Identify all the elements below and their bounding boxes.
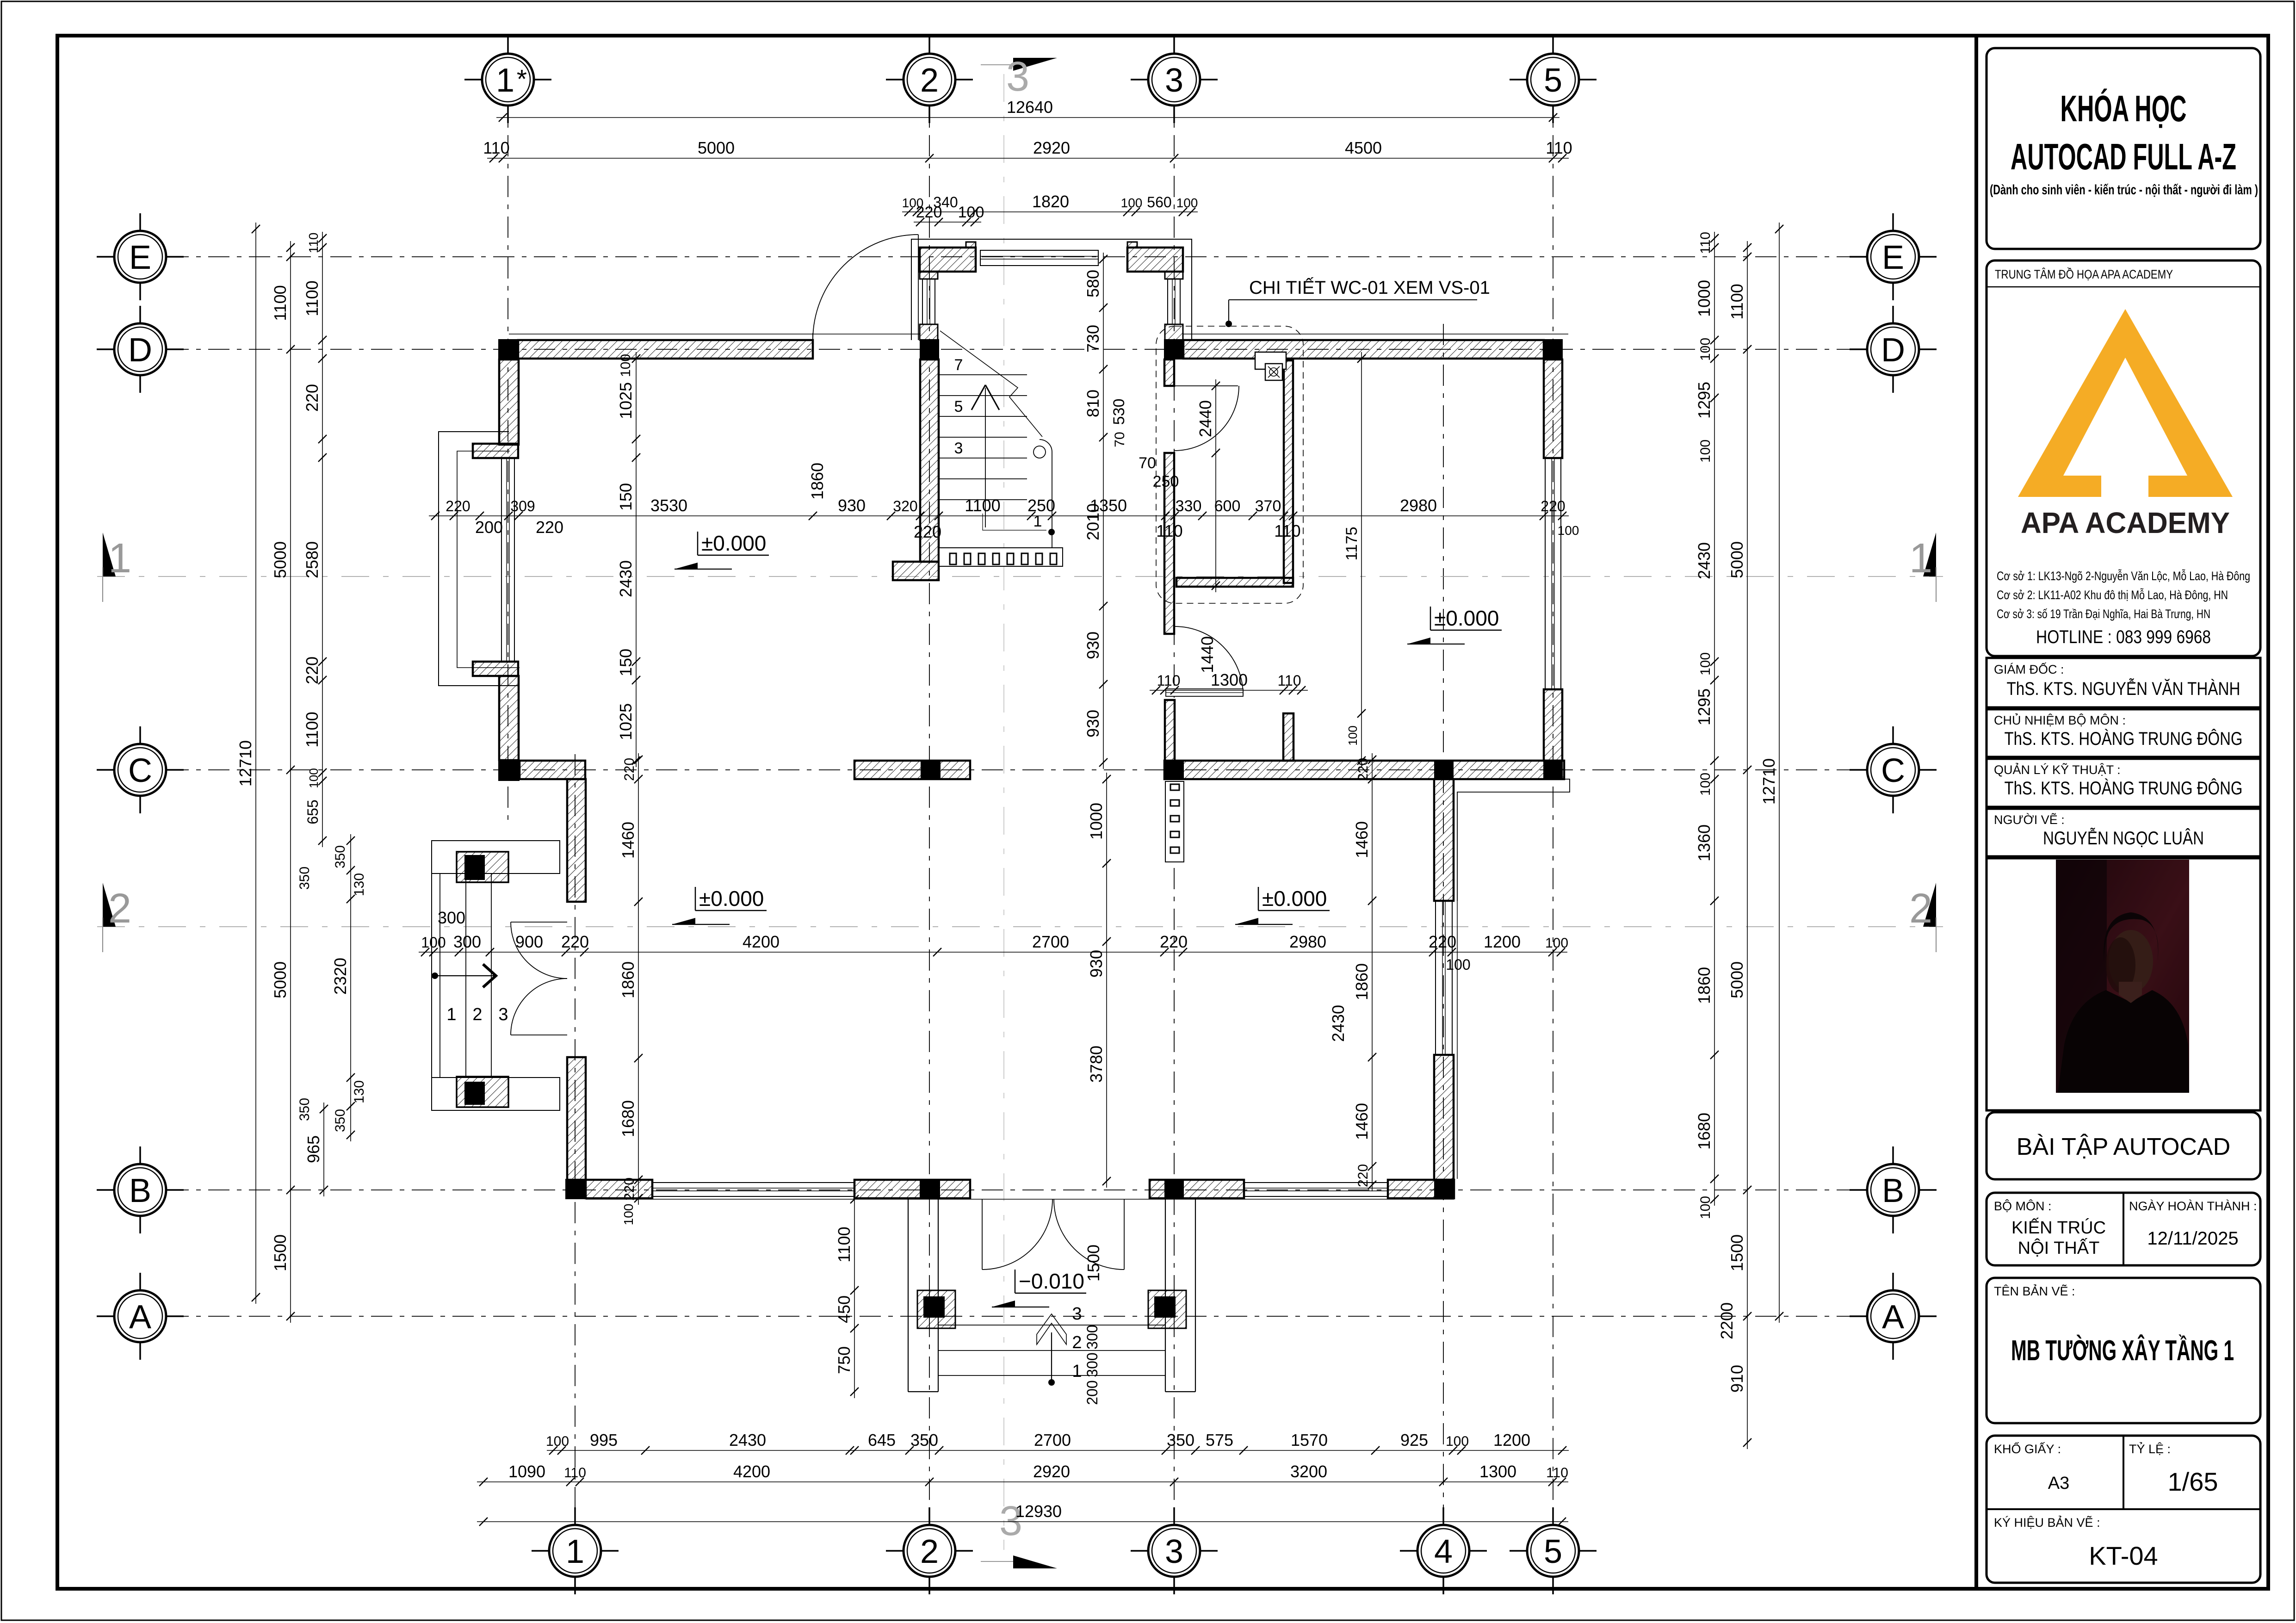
svg-text:110: 110 — [1546, 1465, 1568, 1481]
axis 1* vertical — [507, 54, 508, 824]
svg-text:NGÀY HOÀN THÀNH :: NGÀY HOÀN THÀNH : — [2129, 1199, 2257, 1213]
svg-text:C: C — [1881, 752, 1905, 789]
vestibule west window — [922, 279, 935, 324]
svg-text:100: 100 — [958, 204, 984, 221]
svg-text:A: A — [1882, 1299, 1904, 1336]
wall axis1 vertical upper (entry side) — [567, 779, 586, 902]
svg-text:150: 150 — [616, 483, 635, 511]
svg-text:930: 930 — [1083, 632, 1102, 659]
svg-text:KHỔ GIẤY :: KHỔ GIẤY : — [1994, 1442, 2061, 1456]
axis4 wall outer face line — [1457, 901, 1458, 1179]
svg-text:3: 3 — [1072, 1304, 1082, 1324]
interior vertical dims left living x1380 — [638, 753, 639, 1205]
grid bubble C left — [114, 744, 166, 796]
WC west wall middle — [1164, 453, 1174, 634]
west entry arrow — [435, 975, 497, 976]
svg-text:Cơ sở 1: LK13-Ngõ 2-Nguyễn Văn: Cơ sở 1: LK13-Ngõ 2-Nguyễn Văn Lộc, Mỗ L… — [1997, 569, 2250, 583]
wall C long segment east — [1164, 761, 1564, 779]
west wall stub lower — [473, 662, 518, 676]
top dim row 4 — [914, 222, 981, 223]
west porch pier bottom — [457, 1077, 508, 1107]
grid bubble D left — [114, 323, 166, 375]
box kho giay / ty le / ky hieu — [1987, 1436, 2260, 1583]
grid bubble C right — [1867, 744, 1919, 796]
stair bottom toothed band — [939, 548, 1063, 566]
grid bubble D right — [1867, 323, 1919, 375]
svg-text:900: 900 — [515, 932, 543, 951]
WC equipment box — [1255, 352, 1286, 369]
svg-text:D: D — [1881, 332, 1905, 369]
svg-text:2700: 2700 — [1032, 932, 1069, 951]
svg-text:12710: 12710 — [1759, 758, 1778, 805]
svg-text:1500: 1500 — [1084, 1245, 1103, 1282]
svg-text:4500: 4500 — [1345, 138, 1382, 157]
leader CHI TIET WC-01 — [1229, 299, 1477, 300]
svg-text:930: 930 — [838, 496, 866, 515]
column C/4 — [1434, 760, 1454, 780]
svg-text:370: 370 — [1255, 497, 1281, 515]
svg-text:1025: 1025 — [616, 382, 635, 419]
svg-text:±0.000: ±0.000 — [1262, 886, 1327, 911]
grid bubble B right — [1867, 1164, 1919, 1216]
svg-text:1: 1 — [1034, 513, 1042, 530]
svg-text:AUTOCAD FULL A-Z: AUTOCAD FULL A-Z — [2011, 136, 2236, 177]
box giam doc — [1987, 658, 2260, 707]
svg-text:1100: 1100 — [303, 712, 322, 747]
south entry door jamb walls — [1150, 1180, 1244, 1198]
svg-text:600: 600 — [1214, 497, 1241, 515]
svg-text:B: B — [1882, 1172, 1904, 1209]
grid bubble E right — [1867, 231, 1919, 283]
west porch top band — [432, 841, 560, 873]
svg-text:2980: 2980 — [1400, 496, 1437, 515]
svg-text:995: 995 — [590, 1431, 618, 1450]
svg-text:309: 309 — [510, 498, 535, 514]
vestibule top wall east piece — [1127, 248, 1183, 272]
right dim col segments — [1714, 232, 1715, 1206]
svg-text:5: 5 — [1544, 1533, 1562, 1570]
axis 4 vertical — [1443, 324, 1444, 1521]
svg-text:220: 220 — [561, 932, 589, 951]
door arc west entry lower — [511, 979, 567, 1035]
svg-text:100: 100 — [621, 1204, 636, 1226]
svg-text:5: 5 — [954, 398, 963, 415]
axis B horizontal — [167, 1189, 1864, 1190]
svg-text:1: 1 — [1909, 535, 1932, 582]
column B/2 — [920, 1179, 940, 1199]
top dim row axis spans — [487, 158, 1569, 159]
svg-text:1: 1 — [566, 1533, 584, 1570]
svg-text:1200: 1200 — [1484, 932, 1521, 951]
WC bottom wall — [1176, 578, 1293, 587]
svg-text:1025: 1025 — [616, 703, 635, 740]
svg-text:C: C — [128, 752, 152, 789]
svg-text:100: 100 — [1446, 956, 1470, 973]
box bo mon / ngay — [1987, 1193, 2260, 1265]
step outline at C/5 corner — [1457, 779, 1570, 901]
column C/1* — [498, 760, 520, 781]
svg-text:CHỦ NHIỆM BỘ MÔN :: CHỦ NHIỆM BỘ MÔN : — [1994, 712, 2126, 727]
svg-text:100: 100 — [546, 1434, 569, 1449]
box nguoi ve — [1987, 809, 2260, 856]
grid bubble 4 bottom — [1417, 1525, 1469, 1577]
interior vertical dims top-left room x1375 — [636, 352, 637, 767]
svg-text:250: 250 — [1027, 496, 1055, 515]
svg-text:110: 110 — [1156, 521, 1182, 540]
svg-text:560: 560 — [1147, 194, 1171, 211]
svg-text:1000: 1000 — [1695, 280, 1714, 317]
svg-text:1100: 1100 — [1727, 284, 1746, 319]
stair handrail curl — [1034, 446, 1046, 458]
svg-text:220: 220 — [1429, 932, 1456, 951]
grid bubble 1* top — [482, 54, 534, 105]
left porch dims — [350, 834, 351, 1141]
svg-text:E: E — [129, 239, 151, 276]
svg-text:150: 150 — [616, 649, 635, 676]
column B/1 — [565, 1179, 586, 1199]
svg-text:2320: 2320 — [331, 958, 350, 995]
svg-text:330: 330 — [1176, 497, 1202, 515]
svg-text:A: A — [129, 1299, 151, 1336]
axis E horizontal — [167, 256, 1864, 257]
svg-text:BỘ MÔN :: BỘ MÔN : — [1994, 1199, 2052, 1213]
svg-text:350: 350 — [333, 845, 348, 868]
left dim col total 12710 — [255, 223, 256, 1304]
bottom dim row 2 — [477, 1481, 1568, 1482]
svg-text:250: 250 — [1153, 473, 1179, 490]
svg-text:930: 930 — [1087, 950, 1106, 978]
axis D horizontal — [167, 349, 1864, 350]
west entry door leaves — [511, 922, 567, 923]
svg-text:930: 930 — [1083, 710, 1102, 737]
bottom dim row 1 — [547, 1450, 1569, 1451]
vestibule top wall west piece — [920, 248, 976, 272]
svg-text:100: 100 — [1698, 652, 1713, 675]
svg-text:645: 645 — [868, 1431, 896, 1450]
vestibule top window — [980, 250, 1098, 266]
svg-text:220: 220 — [914, 522, 941, 541]
svg-text:1680: 1680 — [1695, 1113, 1714, 1150]
interior dim row upper rooms y1115 — [429, 515, 1569, 516]
left dim col segments — [322, 232, 323, 847]
svg-text:110: 110 — [483, 138, 509, 157]
svg-text:2: 2 — [1072, 1333, 1082, 1352]
interior vertical dims center x2392 — [1106, 773, 1107, 1188]
svg-text:300: 300 — [453, 932, 481, 951]
bottom dim row 3 total — [477, 1521, 1568, 1522]
svg-text:2430: 2430 — [1329, 1005, 1348, 1042]
svg-text:2: 2 — [920, 1533, 939, 1570]
kitchen toothed strip — [1165, 781, 1184, 862]
south porch steps — [938, 1325, 1165, 1326]
svg-text:220: 220 — [1160, 932, 1188, 951]
axis A horizontal — [167, 1316, 1864, 1317]
svg-text:2700: 2700 — [1034, 1431, 1071, 1450]
vestibule east wall upper stub — [1165, 272, 1183, 279]
stair treads — [939, 374, 1027, 375]
svg-text:110: 110 — [1277, 672, 1301, 689]
svg-text:GIÁM ĐỐC :: GIÁM ĐỐC : — [1994, 662, 2064, 676]
svg-text:1860: 1860 — [1695, 967, 1714, 1004]
interior dims lower rooms row y2058 — [419, 952, 1567, 953]
svg-text:220: 220 — [303, 384, 322, 412]
column C/5 — [1543, 760, 1563, 780]
svg-text:1: 1 — [108, 535, 131, 582]
svg-text:100: 100 — [1346, 725, 1360, 745]
section line 2-2 — [97, 926, 1943, 927]
svg-text:NGUYỄN NGỌC LUÂN: NGUYỄN NGỌC LUÂN — [2043, 827, 2204, 849]
box quan ly — [1987, 759, 2260, 807]
svg-text:1460: 1460 — [1352, 1103, 1371, 1140]
svg-text:320: 320 — [893, 498, 917, 514]
south entry arrow — [1051, 1332, 1052, 1382]
svg-text:*: * — [517, 64, 527, 94]
svg-text:300: 300 — [1084, 1325, 1101, 1349]
svg-text:220: 220 — [916, 204, 942, 221]
svg-text:NỘI THẤT: NỘI THẤT — [2018, 1238, 2100, 1258]
wall stub above C (1175) — [1283, 713, 1293, 761]
svg-text:220: 220 — [536, 518, 563, 537]
svg-text:2: 2 — [920, 62, 939, 99]
axis 5 vertical — [1553, 54, 1553, 1521]
svg-text:350: 350 — [297, 867, 312, 890]
svg-text:70: 70 — [1139, 454, 1156, 472]
window B wall east — [1244, 1183, 1388, 1196]
svg-text:1860: 1860 — [619, 961, 637, 998]
svg-text:3200: 3200 — [1290, 1462, 1327, 1481]
svg-text:ThS. KTS. HOÀNG TRUNG ĐÔNG: ThS. KTS. HOÀNG TRUNG ĐÔNG — [2005, 728, 2243, 749]
bay window west (window glass) — [501, 458, 514, 662]
svg-text:1295: 1295 — [1695, 688, 1714, 725]
axis 1 vertical — [575, 754, 576, 1521]
svg-text:CHI TIẾT WC-01 XEM VS-01: CHI TIẾT WC-01 XEM VS-01 — [1249, 277, 1490, 298]
svg-text:12930: 12930 — [1015, 1502, 1062, 1521]
grid bubble B left — [114, 1164, 166, 1216]
south entry door arcs — [982, 1199, 1052, 1270]
left dim col axis spans — [290, 241, 291, 1323]
column D/3 — [1164, 339, 1183, 359]
title block separator — [1974, 36, 1978, 1589]
svg-text:350: 350 — [910, 1431, 938, 1450]
svg-text:1100: 1100 — [965, 496, 1000, 515]
grid bubble 3 top — [1148, 54, 1200, 105]
box ten ban ve — [1987, 1278, 2260, 1423]
WC east wall — [1284, 360, 1293, 583]
axis C horizontal — [167, 769, 1864, 770]
svg-text:810: 810 — [1083, 390, 1102, 417]
svg-text:100: 100 — [1121, 196, 1143, 210]
wall B segment west — [586, 1180, 652, 1198]
svg-text:2: 2 — [472, 1005, 482, 1024]
south porch east wall — [1165, 1199, 1166, 1392]
wall axis1 vertical lower (entry side) — [567, 1057, 586, 1180]
svg-text:2440: 2440 — [1196, 400, 1215, 437]
door arc west entry upper — [511, 922, 567, 979]
window B wall west — [652, 1183, 854, 1196]
svg-text:2980: 2980 — [1289, 932, 1326, 951]
svg-text:1/65: 1/65 — [2168, 1467, 2218, 1496]
svg-text:100: 100 — [1176, 196, 1198, 210]
wall C west segment — [520, 761, 585, 779]
svg-text:220: 220 — [1541, 498, 1565, 514]
interior dims hall row y1492 — [1150, 690, 1308, 691]
right dim col axis spans — [1747, 241, 1748, 1449]
svg-text:100: 100 — [618, 354, 633, 377]
svg-text:220: 220 — [1355, 1164, 1371, 1187]
grid bubble E left — [114, 231, 166, 283]
section line 1-1 — [97, 576, 1943, 577]
svg-text:965: 965 — [304, 1135, 323, 1163]
svg-text:100: 100 — [1698, 773, 1713, 796]
svg-text:1460: 1460 — [619, 822, 637, 859]
svg-text:110: 110 — [306, 233, 321, 254]
svg-text:1360: 1360 — [1695, 824, 1714, 861]
box bai tap — [1987, 1112, 2260, 1179]
interior vertical dims right living x2941 — [1372, 753, 1373, 1191]
svg-text:A3: A3 — [2048, 1474, 2069, 1493]
svg-text:3530: 3530 — [650, 496, 687, 515]
svg-text:220: 220 — [1355, 758, 1371, 781]
photo box — [1987, 858, 2260, 1110]
west porch bottom band — [432, 1078, 560, 1110]
svg-text:1090: 1090 — [508, 1462, 545, 1481]
svg-text:±0.000: ±0.000 — [699, 886, 764, 911]
grid bubble 3 bottom — [1148, 1525, 1200, 1577]
axis 2 vertical — [929, 54, 930, 1521]
WC fan — [1265, 364, 1282, 380]
grid bubble 2 top — [904, 54, 955, 105]
svg-text:1860: 1860 — [808, 463, 827, 500]
svg-text:4: 4 — [1434, 1533, 1453, 1570]
WC west wall piece upper — [1164, 359, 1174, 386]
svg-text:1820: 1820 — [1032, 192, 1069, 211]
svg-text:4200: 4200 — [743, 932, 780, 951]
svg-text:NGƯỜI VẼ :: NGƯỜI VẼ : — [1994, 812, 2065, 827]
east window axis 5 — [1545, 458, 1561, 689]
svg-text:1175: 1175 — [1343, 527, 1361, 560]
interior vertical dims WC x2628 — [1215, 379, 1216, 592]
WC detail dashed boundary — [1156, 326, 1303, 603]
svg-text:1100: 1100 — [271, 285, 290, 321]
svg-text:2430: 2430 — [616, 560, 635, 597]
grid bubble A right — [1867, 1290, 1919, 1342]
svg-text:1: 1 — [1072, 1362, 1082, 1381]
window east axis4 — [1436, 901, 1452, 1055]
svg-text:APA ACADEMY: APA ACADEMY — [2021, 506, 2230, 539]
svg-text:5000: 5000 — [271, 541, 290, 578]
svg-text:Cơ sở 2: LK11-A02 Khu đô thị M: Cơ sở 2: LK11-A02 Khu đô thị Mỗ Lao, Hà … — [1997, 588, 2228, 602]
west porch pier top — [457, 852, 508, 882]
right dim col total — [1779, 223, 1780, 1323]
stair west wall foot — [893, 562, 939, 580]
svg-text:5000: 5000 — [1727, 961, 1746, 998]
svg-text:925: 925 — [1400, 1431, 1428, 1450]
svg-text:5: 5 — [1544, 62, 1562, 99]
svg-text:100: 100 — [1446, 1434, 1469, 1449]
column D/1* — [498, 339, 519, 359]
svg-text:1500: 1500 — [271, 1234, 290, 1271]
grid bubble 2 bottom — [904, 1525, 955, 1577]
stair break line — [940, 331, 1042, 437]
bay window outline — [439, 432, 520, 686]
svg-text:70: 70 — [1112, 432, 1127, 447]
title box academy — [1987, 260, 2260, 656]
top dim row 3 vestibule — [902, 211, 1198, 212]
svg-text:5000: 5000 — [271, 961, 290, 998]
svg-text:1680: 1680 — [619, 1100, 637, 1137]
svg-text:1: 1 — [446, 1005, 456, 1024]
svg-text:3: 3 — [1165, 62, 1183, 99]
svg-text:ThS. KTS. NGUYỄN VĂN THÀNH: ThS. KTS. NGUYỄN VĂN THÀNH — [2007, 678, 2240, 699]
svg-text:100: 100 — [1558, 523, 1579, 538]
svg-text:12/11/2025: 12/11/2025 — [2147, 1228, 2238, 1249]
svg-text:350: 350 — [1167, 1431, 1194, 1450]
APA logo triangle — [2018, 309, 2233, 497]
svg-text:±0.000: ±0.000 — [701, 531, 766, 555]
hall door arc — [1175, 626, 1243, 695]
svg-text:910: 910 — [1727, 1365, 1746, 1393]
stair up arrow — [985, 388, 986, 527]
svg-text:7: 7 — [954, 356, 963, 374]
svg-text:580: 580 — [1083, 270, 1102, 297]
svg-text:110: 110 — [1546, 138, 1572, 157]
wall B segment at axis 2 — [854, 1180, 970, 1198]
svg-text:100: 100 — [307, 768, 321, 788]
svg-text:QUẢN LÝ KỸ THUẬT :: QUẢN LÝ KỸ THUẬT : — [1994, 762, 2121, 777]
stair leader 1 — [983, 514, 1046, 530]
hall shelf — [1166, 689, 1243, 696]
stair west wall axis 2 — [920, 359, 939, 562]
svg-text:350: 350 — [333, 1109, 348, 1132]
svg-text:BÀI TẬP AUTOCAD: BÀI TẬP AUTOCAD — [2017, 1134, 2230, 1160]
svg-text:3: 3 — [1006, 54, 1029, 100]
interior vertical dims stair x2385 — [1103, 253, 1104, 769]
svg-text:2920: 2920 — [1033, 138, 1070, 157]
svg-text:TRUNG TÂM ĐỒ HỌA APA ACADEMY: TRUNG TÂM ĐỒ HỌA APA ACADEMY — [1995, 267, 2173, 281]
svg-text:110: 110 — [1274, 521, 1300, 540]
south porch west wall — [908, 1199, 909, 1392]
wall C segment at axis 2 — [854, 761, 970, 779]
svg-text:KÝ HIỆU BẢN VẼ :: KÝ HIỆU BẢN VẼ : — [1994, 1515, 2100, 1530]
axis 3 vertical — [1174, 54, 1175, 1521]
west porch steps — [439, 873, 440, 1078]
svg-text:300: 300 — [438, 908, 465, 927]
svg-text:1100: 1100 — [303, 280, 322, 316]
svg-text:575: 575 — [1206, 1431, 1233, 1450]
svg-text:110: 110 — [1698, 232, 1713, 254]
svg-text:3: 3 — [498, 1005, 508, 1024]
svg-text:1295: 1295 — [1695, 382, 1714, 419]
column B/4 — [1434, 1179, 1454, 1199]
svg-text:ThS. KTS. HOÀNG TRUNG ĐÔNG: ThS. KTS. HOÀNG TRUNG ĐÔNG — [2005, 778, 2243, 799]
svg-text:KT-04: KT-04 — [2089, 1541, 2158, 1570]
svg-text:1300: 1300 — [1479, 1462, 1516, 1481]
vestibule west wall upper stub — [920, 272, 938, 279]
portrait photo — [2056, 860, 2189, 1093]
door arc vestibule west door — [813, 235, 918, 340]
title box course — [1987, 48, 2260, 249]
svg-text:1570: 1570 — [1291, 1431, 1328, 1450]
svg-text:2: 2 — [108, 886, 131, 932]
grid bubble 1 bottom — [549, 1525, 601, 1577]
WC door arc — [1174, 386, 1239, 451]
svg-text:2430: 2430 — [1695, 542, 1714, 579]
svg-text:1: 1 — [496, 62, 514, 99]
svg-text:12710: 12710 — [236, 740, 255, 787]
svg-text:(Dành cho sinh viên - kiến tr: (Dành cho sinh viên - kiến trúc - nội th… — [1990, 182, 2258, 198]
svg-text:−0.010: −0.010 — [1019, 1269, 1084, 1293]
section line 3-3 vertical — [1003, 74, 1004, 1550]
